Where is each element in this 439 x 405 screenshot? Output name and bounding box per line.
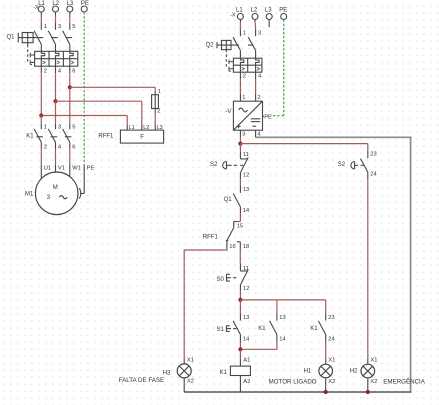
svg-text:S2: S2 <box>338 162 346 168</box>
wire Q1-6 down to node <box>69 73 71 87</box>
svg-text:5: 5 <box>72 24 75 30</box>
svg-text:6: 6 <box>72 69 75 75</box>
svg-text:U1: U1 <box>44 165 51 171</box>
svg-text:16: 16 <box>229 244 235 250</box>
motor lead wires <box>40 172 42 178</box>
node control branch <box>238 298 242 302</box>
wire PSU-3 to node 24V <box>239 138 241 144</box>
Q1 pin 4 <box>55 66 57 73</box>
wire 24V down to S2 11 <box>239 144 241 152</box>
motor PE frame connection <box>83 172 85 193</box>
svg-text:S1: S1 <box>217 327 225 333</box>
K1 pin 1 blade <box>40 124 42 130</box>
svg-text:24: 24 <box>328 336 335 342</box>
PSU PE terminal <box>263 115 265 117</box>
svg-text:FALTA DE FASE: FALTA DE FASE <box>119 377 165 384</box>
wire fuse to RFF1 L3 <box>154 113 156 124</box>
wire RFF1-18 to S0 <box>239 250 241 264</box>
wire Q2-4 to PSU pin 2 <box>255 79 257 93</box>
K1 pin 3 blade <box>55 124 57 130</box>
svg-text:1: 1 <box>44 124 47 130</box>
svg-text:14: 14 <box>279 336 286 342</box>
Q2 magnetic element <box>239 65 241 72</box>
wire K1-14 back to coil node <box>240 342 277 350</box>
svg-text:F: F <box>140 134 144 140</box>
svg-text:6: 6 <box>72 144 75 150</box>
svg-text:H3: H3 <box>163 370 171 376</box>
node L2 branch <box>53 99 57 103</box>
wires node down to K1 pins <box>40 116 42 124</box>
svg-text:2: 2 <box>257 95 260 101</box>
svg-text:EMERGÊNCIA: EMERGÊNCIA <box>383 378 425 386</box>
PE conductor green dashed right <box>283 20 285 116</box>
svg-text:1: 1 <box>158 89 161 95</box>
svg-text:23: 23 <box>328 315 334 321</box>
svg-text:1: 1 <box>242 95 245 101</box>
wire Q2-2 to PSU pin 1 <box>239 79 241 93</box>
svg-text:X1: X1 <box>187 357 194 363</box>
svg-text:13: 13 <box>243 315 249 321</box>
svg-text:H1: H1 <box>304 368 312 374</box>
svg-text:11: 11 <box>243 152 249 158</box>
Q1 thermal element <box>41 51 44 58</box>
wire L1 to Q1 pin 1 <box>40 12 42 15</box>
svg-text:X1: X1 <box>370 357 377 363</box>
wire 24V rail to S2 NO branch <box>240 143 367 145</box>
PSU pin 4 <box>255 130 257 137</box>
svg-text:14: 14 <box>243 208 250 214</box>
svg-text:S2: S2 <box>210 162 218 168</box>
svg-text:3: 3 <box>58 24 61 30</box>
svg-text:H2: H2 <box>350 368 358 374</box>
svg-text:K1: K1 <box>258 326 266 332</box>
svg-text:K1: K1 <box>310 326 318 332</box>
wire Q1-2 down to node <box>40 73 42 115</box>
terminal L3 stub <box>268 20 270 28</box>
svg-text:2: 2 <box>44 69 47 75</box>
node L3 branch <box>68 85 72 89</box>
K1 pin 5 blade <box>69 124 71 130</box>
Q1 pin 5 and contact blade <box>69 23 71 30</box>
wire node to RFF1 L2 <box>56 100 142 102</box>
svg-text:V1: V1 <box>58 165 65 171</box>
wire Q1-4 down to node <box>55 73 57 101</box>
Q1 pin 3 and contact blade <box>55 23 57 30</box>
wire RFF1-16 to lamp H3 <box>184 249 227 358</box>
wire node to RFF1 L1 <box>41 115 127 117</box>
Q2 thermal element <box>240 58 243 65</box>
wire L2 to Q1 pin 3 <box>55 12 57 15</box>
svg-text:L1: L1 <box>236 7 243 13</box>
svg-text:RFF1: RFF1 <box>203 234 219 240</box>
svg-text:A1: A1 <box>243 358 250 364</box>
svg-text:3: 3 <box>242 131 245 137</box>
svg-text:X1: X1 <box>328 357 335 363</box>
wires K1 to motor terminals <box>40 149 42 165</box>
Q1 magnetic element <box>55 59 57 66</box>
svg-text:MOTOR LIGADO: MOTOR LIGADO <box>269 379 317 386</box>
svg-text:-V: -V <box>225 109 231 115</box>
Q2 thermal element <box>256 58 259 65</box>
svg-text:PE: PE <box>279 7 287 13</box>
Q2 pin 4 <box>255 72 257 79</box>
svg-text:X2: X2 <box>370 379 377 385</box>
svg-text:2: 2 <box>44 144 47 150</box>
wire S2-24 to lamp H2 <box>367 179 369 359</box>
svg-text:13: 13 <box>279 315 285 321</box>
svg-text:5: 5 <box>72 124 75 130</box>
svg-text:15: 15 <box>237 223 243 229</box>
svg-text:L3: L3 <box>265 7 272 13</box>
svg-text:1: 1 <box>44 24 47 30</box>
node L1 branch <box>39 113 43 117</box>
Q2 pin 2 <box>239 72 241 79</box>
svg-text:-X: -X <box>230 13 236 19</box>
svg-text:2: 2 <box>157 109 160 115</box>
wire L1 to Q2 pin 1 <box>239 20 241 23</box>
PSU pin 3 <box>239 130 241 137</box>
svg-text:L2: L2 <box>251 7 258 13</box>
svg-text:PE: PE <box>87 165 95 171</box>
svg-text:Q2: Q2 <box>206 42 215 48</box>
svg-text:RFF1: RFF1 <box>98 133 114 139</box>
wire S2-12 to Q1-13 <box>239 179 241 186</box>
wire S0-12 to node <box>239 291 241 300</box>
svg-text:3: 3 <box>258 31 261 37</box>
svg-text:12: 12 <box>243 286 249 292</box>
wire node to K1-13 and K1-23 branches <box>240 299 325 301</box>
PE conductor green dashed left <box>83 12 85 165</box>
Q1 pin 2 <box>40 66 42 73</box>
svg-text:K1: K1 <box>26 133 34 139</box>
node H1 on 0V rail <box>324 390 328 394</box>
wire Q1-14 to RFF1 15 <box>239 214 241 222</box>
node H2 on 0V rail <box>366 390 370 394</box>
Q2 pin 3 and contact blade <box>255 29 257 36</box>
wire L3 to Q1 pin 5 <box>69 12 71 15</box>
svg-text:W1: W1 <box>72 165 81 171</box>
wire L2 to Q2 pin 3 <box>254 20 256 23</box>
Q1 magnetic element <box>40 59 42 66</box>
svg-text:K1: K1 <box>220 370 228 376</box>
svg-text:M1: M1 <box>25 192 34 198</box>
svg-text:14: 14 <box>243 336 250 342</box>
svg-text:3: 3 <box>58 124 61 130</box>
Q1 thermal element <box>56 51 59 58</box>
wire node down to S1-13 <box>239 300 241 314</box>
svg-text:A2: A2 <box>243 379 250 385</box>
svg-text:2: 2 <box>243 74 246 80</box>
svg-text:M: M <box>53 185 58 191</box>
motor terminal marks U1 V1 W1 PE <box>40 165 42 173</box>
node coil A1 <box>238 347 242 351</box>
svg-text:S0: S0 <box>217 277 225 283</box>
svg-text:PE: PE <box>264 115 272 121</box>
Q1 pin 6 <box>69 66 71 73</box>
svg-text:12: 12 <box>243 173 249 179</box>
Q1 pin 1 and contact blade <box>40 23 42 30</box>
Q1 thermal element <box>70 51 73 58</box>
Q2 pin 1 and contact blade <box>239 29 241 36</box>
svg-text:X2: X2 <box>187 379 194 385</box>
svg-text:X2: X2 <box>328 379 335 385</box>
wire K1-24 to lamp H1 <box>325 342 327 359</box>
0V return rail gray <box>256 137 411 392</box>
svg-text:23: 23 <box>370 152 376 158</box>
wire node to fuse <box>70 86 155 88</box>
svg-text:18: 18 <box>243 244 249 250</box>
svg-text:24: 24 <box>370 171 377 177</box>
contactor coil K1 A1-A2 <box>239 349 241 358</box>
node 24V <box>238 142 242 146</box>
svg-text:1: 1 <box>243 31 246 37</box>
wire S1-14 to coil node <box>239 342 241 350</box>
Q1 trip unit box (thermal + magnetic) <box>35 51 78 66</box>
fuse F1 pins 1-2 <box>154 91 156 113</box>
svg-text:13: 13 <box>243 187 249 193</box>
Q2 magnetic element <box>255 65 257 72</box>
svg-text:Q1: Q1 <box>224 197 233 203</box>
K1 mechanical link dashes <box>36 136 43 138</box>
Q2 trip unit box <box>233 58 262 72</box>
svg-text:Q1: Q1 <box>7 35 16 41</box>
Q1 magnetic element <box>69 59 71 66</box>
